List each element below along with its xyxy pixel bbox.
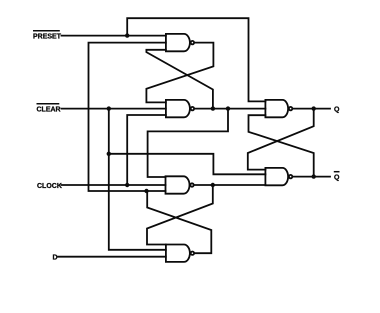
wire G4 output feedback to G1 pin 2 (left rail) <box>89 43 166 191</box>
wire G6 output to Q-bar terminal <box>293 176 330 178</box>
svg-text:Q: Q <box>334 107 340 114</box>
NAND gate G4 (data gate) <box>166 245 194 262</box>
svg-text:CLEAR: CLEAR <box>37 107 61 114</box>
label Q-bar (active low) <box>334 172 340 182</box>
wire CLEAR branch to G6 pin 2 <box>109 154 266 175</box>
wire Q to G6 pin 1 (cross coupling) <box>248 109 314 170</box>
wire CLOCK input to G3 pin 2 <box>62 184 166 186</box>
wire CLEAR down to G4 pin 2 <box>109 109 166 250</box>
junction clear rail/G6 branch <box>107 152 111 156</box>
label CLEAR (active low) <box>37 104 61 114</box>
junction clock/G2 branch <box>125 183 129 187</box>
wire G2 output branch to G3 pin 1 <box>148 109 228 177</box>
junction G3 output/G4 cross <box>211 183 215 187</box>
wire G2 output to G1 pin 3 (cross coupling) <box>146 50 213 109</box>
svg-text:Q: Q <box>334 175 340 182</box>
wire PRESET input to G1 pin 1 <box>62 35 166 37</box>
wire G4 output up to G3 pin 3 and G1 (cross coupling) <box>147 191 211 253</box>
NAND gate G6 (Q-bar output gate) <box>265 168 292 185</box>
junction G2 output/G3 branch <box>226 106 230 110</box>
svg-text:PRESET: PRESET <box>33 34 62 41</box>
svg-text:D: D <box>53 255 58 262</box>
NAND gate G1 (preset gate) <box>166 34 194 51</box>
svg-text:CLOCK: CLOCK <box>37 183 62 190</box>
NAND gate G2 (clear gate) <box>166 100 194 117</box>
junction G2 output/G1 feedback <box>211 106 215 110</box>
junction Q node <box>312 106 316 110</box>
wire G2 output to G5 pin 2 <box>195 108 266 110</box>
wire Q-bar to G5 pin 3 (cross coupling) <box>249 115 314 176</box>
NAND gate G5 (Q output gate) <box>265 100 292 117</box>
wire G3 output to G6 pin 3 <box>194 184 265 186</box>
label PRESET (active low) <box>33 31 62 41</box>
wire G3 output to G4 pin 1 (cross coupling) <box>147 185 213 245</box>
junction preset/top-rail <box>125 33 129 37</box>
wire CLEAR input to G2 pin 2 <box>62 108 166 110</box>
wire CLOCK branch up to G2 pin 3 <box>127 115 166 185</box>
wire G1 output to G2 pin 1 (cross coupling) <box>146 43 213 103</box>
NAND gate G3 (clock gate) <box>166 176 194 193</box>
junction clear/down-rail <box>107 106 111 110</box>
wire D input to G4 pin 3 <box>58 256 166 258</box>
wire G5 output to Q terminal <box>293 108 330 110</box>
junction G4 feedback/G3 pin 3 <box>144 189 148 193</box>
junction Q-bar node <box>312 174 316 178</box>
wire PRESET to G5 pin 1 (top feedback rail) <box>127 18 265 101</box>
